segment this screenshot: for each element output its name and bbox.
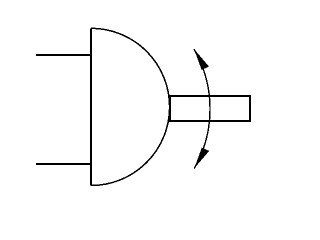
upper arrowhead	[194, 49, 209, 70]
wire: lower left port line	[36, 163, 91, 165]
vane / shaft rectangle	[170, 96, 250, 121]
lower arrowhead	[194, 148, 209, 169]
rotation arrow arc	[194, 49, 210, 169]
actuator body flat side (vertical line of D)	[90, 28, 92, 185]
wire: upper left port line	[36, 54, 91, 56]
actuator body semicircle arc	[91, 28, 170, 185]
